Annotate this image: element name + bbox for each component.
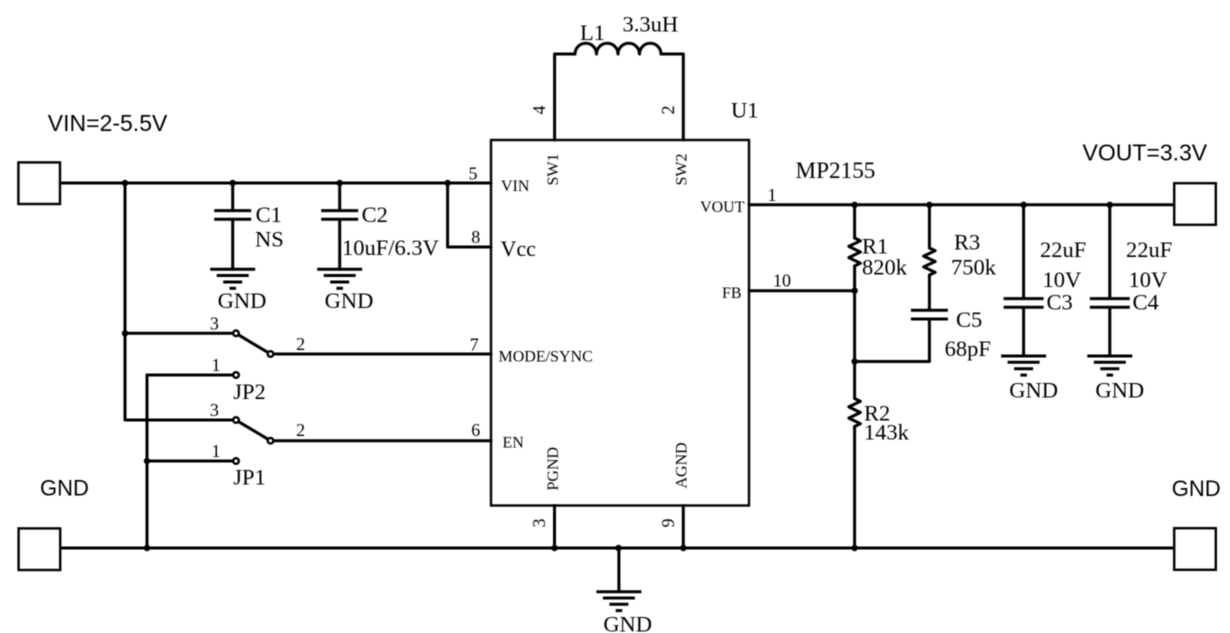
svg-text:C1: C1 (256, 202, 282, 227)
svg-text:SW2: SW2 (674, 154, 691, 186)
svg-text:3: 3 (210, 313, 219, 333)
svg-text:GND: GND (1172, 476, 1221, 501)
svg-text:GND: GND (218, 288, 267, 313)
svg-text:VOUT: VOUT (700, 199, 745, 216)
svg-text:FB: FB (722, 285, 742, 302)
svg-text:PGND: PGND (545, 447, 562, 491)
svg-text:143k: 143k (864, 420, 910, 445)
svg-text:C4: C4 (1133, 290, 1159, 315)
svg-text:JP1: JP1 (233, 465, 266, 490)
svg-text:C5: C5 (956, 307, 982, 332)
svg-text:5: 5 (469, 164, 478, 184)
svg-text:AGND: AGND (674, 442, 691, 488)
svg-text:EN: EN (503, 435, 525, 452)
svg-text:1: 1 (768, 185, 777, 205)
svg-text:2: 2 (296, 334, 305, 354)
svg-text:6: 6 (471, 420, 480, 440)
svg-text:C2: C2 (362, 202, 388, 227)
svg-text:22uF: 22uF (1040, 237, 1086, 262)
svg-text:VOUT=3.3V: VOUT=3.3V (1083, 140, 1208, 166)
svg-text:7: 7 (470, 334, 479, 354)
svg-text:GND: GND (1009, 377, 1058, 402)
svg-text:10uF/6.3V: 10uF/6.3V (342, 235, 439, 260)
svg-text:10: 10 (773, 271, 791, 291)
svg-text:SW1: SW1 (545, 154, 562, 186)
svg-text:JP2: JP2 (233, 379, 266, 404)
svg-text:9: 9 (658, 519, 678, 528)
svg-text:10V: 10V (1129, 267, 1168, 292)
svg-text:2: 2 (658, 106, 678, 115)
svg-text:2: 2 (296, 420, 305, 440)
svg-text:3: 3 (529, 519, 549, 528)
svg-text:MP2155: MP2155 (796, 158, 876, 184)
svg-text:3: 3 (210, 400, 219, 420)
svg-text:Vcc: Vcc (501, 236, 537, 261)
svg-text:MODE/SYNC: MODE/SYNC (499, 349, 593, 366)
svg-text:U1: U1 (731, 97, 759, 122)
svg-text:GND: GND (603, 612, 652, 633)
svg-text:10V: 10V (1043, 267, 1082, 292)
svg-text:C3: C3 (1047, 290, 1073, 315)
svg-text:NS: NS (255, 227, 284, 252)
svg-text:3.3uH: 3.3uH (623, 12, 679, 37)
svg-text:8: 8 (471, 227, 480, 247)
svg-text:1: 1 (212, 355, 221, 375)
svg-text:1: 1 (212, 441, 221, 461)
svg-text:68pF: 68pF (945, 336, 991, 361)
svg-text:VIN=2-5.5V: VIN=2-5.5V (48, 110, 168, 136)
svg-text:4: 4 (529, 106, 549, 115)
svg-text:22uF: 22uF (1126, 237, 1172, 262)
svg-text:820k: 820k (862, 255, 908, 280)
svg-text:GND: GND (325, 288, 374, 313)
svg-text:VIN: VIN (501, 178, 530, 195)
svg-text:R3: R3 (954, 230, 980, 255)
svg-text:GND: GND (40, 476, 89, 501)
svg-text:GND: GND (1095, 377, 1144, 402)
svg-text:L1: L1 (580, 20, 605, 45)
svg-text:750k: 750k (951, 255, 997, 280)
